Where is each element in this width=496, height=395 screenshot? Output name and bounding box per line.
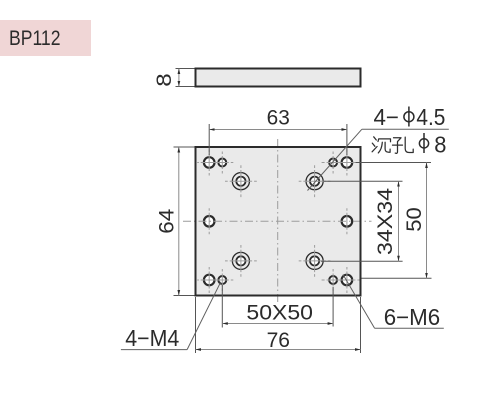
main plate outline (over centerlines) bbox=[196, 147, 361, 296]
label 4-M4 with leader bbox=[121, 282, 221, 351]
svg-text:4−M4: 4−M4 bbox=[125, 325, 179, 351]
centermark counterbore bottom-right bbox=[299, 245, 331, 277]
svg-text:8: 8 bbox=[153, 73, 176, 87]
title label BP112 bbox=[0, 20, 91, 56]
centermark M6 bottom-right bbox=[338, 267, 360, 293]
svg-text:63: 63 bbox=[267, 106, 290, 129]
counterbore hole top-left bbox=[232, 173, 249, 190]
hole M6 top-left bbox=[204, 157, 215, 168]
dimension 76 bbox=[196, 297, 361, 353]
svg-text:34X34: 34X34 bbox=[374, 188, 397, 255]
centermark M6 bottom-left bbox=[197, 267, 222, 293]
centermark counterbore bottom-left bbox=[225, 245, 257, 277]
hole M6 mid-right bbox=[342, 216, 353, 227]
hole M6 mid-left bbox=[204, 216, 215, 227]
horizontal centerline bbox=[183, 220, 372, 222]
label 6-M6 with leader bbox=[343, 275, 444, 331]
svg-text:8: 8 bbox=[434, 131, 446, 157]
char chen bbox=[372, 137, 390, 153]
counterbore hole top-right bbox=[306, 173, 323, 190]
svg-text:BP112: BP112 bbox=[9, 27, 61, 50]
main plate view bbox=[196, 147, 361, 296]
label 4-dia4.5 counterbore dia8 with leader bbox=[308, 104, 449, 191]
hole M6 bottom-right bbox=[342, 275, 353, 286]
svg-text:50X50: 50X50 bbox=[246, 301, 313, 324]
centermark M4 bottom-right bbox=[322, 269, 345, 291]
svg-text:50: 50 bbox=[403, 207, 426, 232]
centermark M6 mid-right bbox=[346, 208, 348, 234]
counterbore hole bottom-right bbox=[306, 252, 323, 269]
counterbore hole bottom-left bbox=[232, 252, 249, 269]
svg-text:6−M6: 6−M6 bbox=[384, 304, 441, 330]
dimension 34X34 bbox=[321, 181, 403, 261]
svg-text:4−: 4− bbox=[374, 104, 400, 130]
centermark M4 bottom-left bbox=[216, 269, 234, 291]
svg-text:76: 76 bbox=[267, 329, 290, 352]
char kong bbox=[393, 137, 414, 153]
hole M4 top-right bbox=[329, 159, 337, 167]
centermark M6 top-right bbox=[338, 150, 360, 176]
hole M4 top-left bbox=[218, 159, 226, 167]
hole M6 top-right bbox=[342, 157, 353, 168]
svg-text:4.5: 4.5 bbox=[416, 104, 445, 130]
hole M4 bottom-right bbox=[329, 276, 337, 284]
dimension 63 bbox=[209, 106, 347, 155]
dimension 50X50 bbox=[222, 285, 333, 328]
centermark M6 top-left bbox=[197, 150, 222, 176]
dimension 64 bbox=[155, 147, 194, 296]
hole centermarks bbox=[197, 150, 360, 294]
vertical centerline bbox=[277, 139, 279, 303]
hole M6 bottom-left bbox=[204, 275, 215, 286]
dimension 8 (plate thickness) bbox=[153, 69, 194, 87]
dimension 50 (vertical) bbox=[356, 163, 432, 279]
hole M4 bottom-left bbox=[218, 276, 226, 284]
label chenkong dia8 (counterbore text) bbox=[372, 131, 446, 157]
centermark M6 mid-left bbox=[208, 208, 210, 234]
side view plate (thickness view) bbox=[196, 69, 361, 87]
centermark counterbore top-left bbox=[225, 165, 257, 197]
centermark counterbore top-right bbox=[299, 165, 331, 197]
centermark M4 top-right bbox=[322, 152, 345, 174]
centermark M4 top-left bbox=[216, 152, 234, 174]
svg-text:64: 64 bbox=[155, 208, 178, 233]
